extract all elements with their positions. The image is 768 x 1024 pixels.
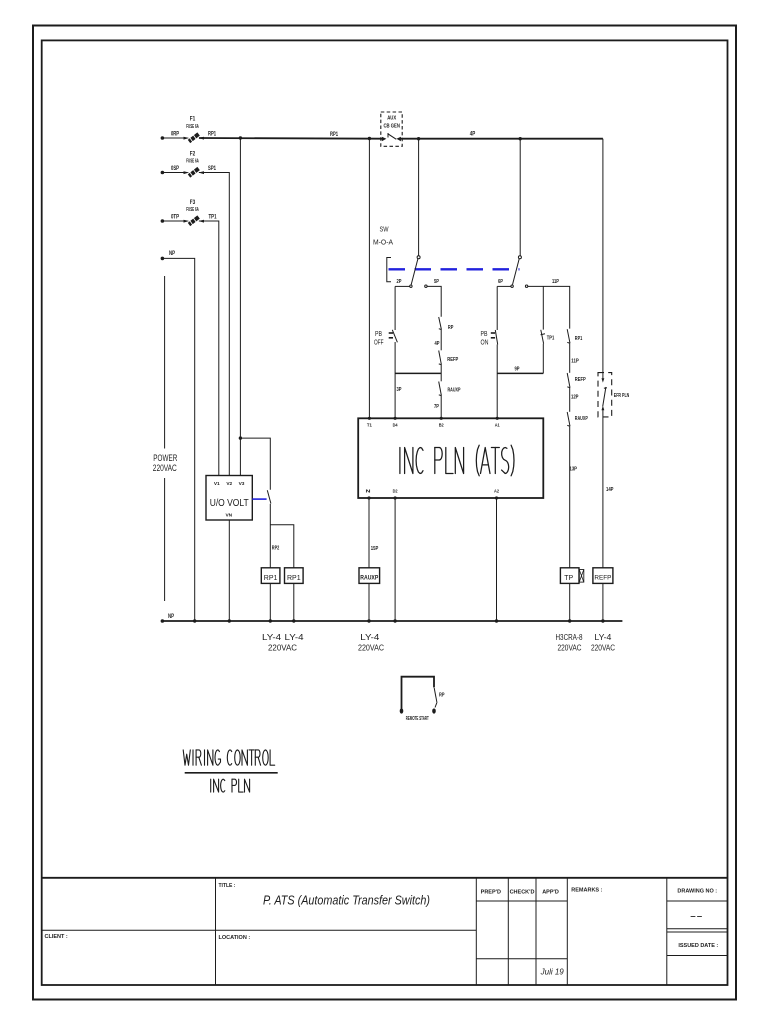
node 0TP <box>161 219 165 223</box>
svg-text:2P: 2P <box>397 279 402 285</box>
pin dot B2 <box>440 417 443 420</box>
svg-text:3P: 3P <box>397 387 402 393</box>
wire branch to RP1 coil 2 <box>270 525 294 568</box>
wire PB ON top <box>496 286 498 330</box>
header underline right <box>476 900 567 902</box>
svg-text:CB GEN: CB GEN <box>383 124 400 130</box>
label INC PLN (ATS) <box>399 448 401 474</box>
svg-text:FUSE 6A: FUSE 6A <box>186 124 199 130</box>
coil REFP <box>593 568 613 584</box>
svg-text:LY-4: LY-4 <box>594 632 611 642</box>
svg-text:RAUXP: RAUXP <box>575 416 588 422</box>
svg-text:RP1: RP1 <box>264 575 278 582</box>
wire RAUXP to rail <box>368 583 370 621</box>
contact RP remote <box>434 688 437 703</box>
svg-text:LY-4: LY-4 <box>262 632 281 642</box>
relay box U/O VOLT <box>206 476 252 521</box>
svg-text:0TP: 0TP <box>171 215 179 221</box>
title WIRING CONTROL <box>183 750 190 765</box>
junction dot <box>417 137 420 140</box>
junction dot <box>519 137 522 140</box>
pin dot N <box>367 496 370 499</box>
svg-text:P. ATS (Automatic Transfer Swi: P. ATS (Automatic Transfer Switch) <box>263 894 430 908</box>
wire 7P <box>440 396 442 419</box>
svg-text:ISSUED DATE :: ISSUED DATE : <box>678 943 718 949</box>
contact RP1 <box>567 329 570 343</box>
wire V3 column <box>239 138 241 476</box>
wire A2 to rail <box>496 498 498 621</box>
svg-text:220VAC: 220VAC <box>358 643 384 653</box>
aux breaker contact CB GEN <box>381 112 402 146</box>
wire D2 to rail <box>394 498 396 621</box>
wire TP1 column top <box>542 286 544 329</box>
svg-text:LY-4: LY-4 <box>285 632 304 642</box>
svg-text:REFP: REFP <box>575 377 586 383</box>
svg-text:RP: RP <box>448 325 454 331</box>
svg-text:RAUXP: RAUXP <box>448 388 461 394</box>
svg-text:DRAWING NO :: DRAWING NO : <box>677 889 717 895</box>
junction dots on rail <box>193 619 196 622</box>
svg-text:REMOTE START: REMOTE START <box>406 716 429 722</box>
svg-text:220VAC: 220VAC <box>153 463 177 473</box>
wire 11P top <box>528 286 570 328</box>
wire NP <box>162 258 194 621</box>
node NP top <box>161 257 165 261</box>
svg-text:6P: 6P <box>498 279 503 285</box>
svg-text:FUSE 6A: FUSE 6A <box>186 159 199 165</box>
wire PB OFF top <box>394 286 396 330</box>
wire 3P crossbar <box>395 372 441 374</box>
wire VN <box>228 520 230 621</box>
svg-text:N: N <box>366 489 371 494</box>
svg-text:RP1: RP1 <box>208 132 216 138</box>
cell divider v4 <box>535 878 537 985</box>
svg-text:LOCATION :: LOCATION : <box>219 935 251 941</box>
svg-text:220VAC: 220VAC <box>268 643 297 653</box>
contact RP <box>439 317 442 330</box>
wire coil a to rail <box>269 583 271 621</box>
svg-text:REFP: REFP <box>447 357 458 363</box>
wire 13P <box>569 426 571 568</box>
sig row line <box>476 958 567 960</box>
cell divider v2 <box>475 878 477 985</box>
client divider <box>42 929 477 931</box>
svg-text:RP2: RP2 <box>272 546 280 552</box>
wire top rail left <box>199 137 383 140</box>
wire TP to rail <box>569 583 571 621</box>
timer coil TP <box>560 568 583 584</box>
svg-text:NP: NP <box>169 251 175 257</box>
svg-text:U/O VOLT: U/O VOLT <box>210 497 249 509</box>
svg-text:TP1: TP1 <box>547 336 555 342</box>
title underline <box>185 772 278 774</box>
terminal dot right <box>432 708 436 713</box>
wire 0TP <box>162 220 187 222</box>
pin dot A2 <box>495 496 498 499</box>
svg-text:15P: 15P <box>371 546 379 552</box>
svg-text:14P: 14P <box>606 487 614 493</box>
power span line upper <box>164 276 166 449</box>
svg-text:A2: A2 <box>494 489 499 494</box>
cell divider v6 <box>666 878 668 985</box>
pin dot T1 <box>368 417 371 420</box>
terminal dot left <box>400 708 404 713</box>
wire below REFP <box>440 365 442 382</box>
node 0SP <box>161 171 165 175</box>
fuse F1 <box>184 134 205 142</box>
drawing no divider <box>667 900 728 902</box>
svg-text:POWER: POWER <box>153 453 177 463</box>
cell divider v1 <box>215 878 217 985</box>
wire PB OFF bottom <box>394 342 396 418</box>
wire branch to contact <box>240 438 270 490</box>
svg-text:7P: 7P <box>434 404 439 410</box>
svg-text:D4: D4 <box>393 423 398 428</box>
svg-text:B2: B2 <box>439 423 444 428</box>
svg-text:TP: TP <box>564 575 573 582</box>
wire 15P <box>368 498 370 568</box>
wire coil b to rail <box>293 583 295 621</box>
contact RAUXP <box>567 412 570 426</box>
node 0RP <box>161 136 165 140</box>
svg-text:0RP: 0RP <box>171 132 179 138</box>
svg-text:220VAC: 220VAC <box>591 643 615 653</box>
svg-text:F3: F3 <box>190 199 196 206</box>
drawing no box bottom <box>667 928 728 930</box>
wire 14P <box>602 408 604 568</box>
svg-text:RP: RP <box>439 693 445 699</box>
svg-text:PREP'D: PREP'D <box>481 890 501 896</box>
wire top rail right <box>400 138 603 140</box>
selector bracket <box>387 258 391 282</box>
svg-text:TP1: TP1 <box>209 215 217 221</box>
svg-text:H3CRA-8: H3CRA-8 <box>556 632 583 642</box>
svg-text:V2: V2 <box>226 481 232 487</box>
contact REFP <box>567 373 570 388</box>
wire 0SP <box>162 172 187 174</box>
wire 0RP <box>162 137 187 139</box>
wire TP1 bottom <box>542 344 544 374</box>
svg-text:220VAC: 220VAC <box>558 643 582 653</box>
svg-text:5P: 5P <box>434 279 439 285</box>
svg-text:13P: 13P <box>570 467 578 473</box>
svg-text:RP1: RP1 <box>287 575 301 582</box>
pushbutton PB ON <box>481 329 498 347</box>
svg-text:RP1: RP1 <box>575 336 583 342</box>
wire 5P <box>427 286 441 316</box>
wire below contact <box>269 504 271 568</box>
fuse F2 <box>184 169 205 177</box>
svg-text:OFF: OFF <box>374 338 384 347</box>
contact RP blade <box>267 490 271 503</box>
svg-text:4P: 4P <box>435 341 440 347</box>
node NP bottom <box>161 619 165 623</box>
svg-text:SW: SW <box>380 225 390 234</box>
wire 2P <box>395 285 409 287</box>
svg-text:--: -- <box>690 911 704 923</box>
pushbutton PB OFF <box>374 329 397 347</box>
cell divider v5 <box>566 878 568 985</box>
svg-text:CHECK'D: CHECK'D <box>510 890 535 896</box>
fuse F3 <box>184 217 205 225</box>
svg-text:RAUXP: RAUXP <box>360 576 378 582</box>
pin dot A1 <box>496 417 499 420</box>
svg-text:M-O-A: M-O-A <box>373 238 393 247</box>
svg-text:4P: 4P <box>470 132 476 138</box>
issued date box bottom <box>667 955 728 957</box>
svg-text:VN: VN <box>225 513 232 519</box>
contact landing ticks <box>439 328 441 331</box>
pin dot D2 <box>394 496 397 499</box>
svg-text:NP: NP <box>168 614 174 620</box>
svg-text:LY-4: LY-4 <box>360 632 379 642</box>
contact TP1 <box>541 330 544 344</box>
svg-text:11P: 11P <box>552 279 559 285</box>
contact RAUXP <box>439 382 442 396</box>
contact REFP <box>439 351 442 365</box>
coil RP1 b <box>285 568 304 584</box>
mechanical link (blue dashed) <box>389 268 520 270</box>
switch SW left pole <box>410 139 427 288</box>
svg-text:9P: 9P <box>515 367 520 373</box>
title INC PLN <box>210 779 212 792</box>
svg-text:V3: V3 <box>239 481 245 487</box>
wire 6P <box>497 285 511 287</box>
wire SP1 <box>199 173 229 477</box>
svg-text:12P: 12P <box>571 395 579 401</box>
svg-text:F1: F1 <box>190 116 196 123</box>
svg-text:SP1: SP1 <box>208 166 216 172</box>
svg-text:CLIENT :: CLIENT : <box>45 934 68 940</box>
wire TP1 <box>199 221 219 476</box>
svg-text:AUX: AUX <box>387 116 396 122</box>
ATS box INC PLN <box>358 418 543 498</box>
wire bottom rail <box>162 620 622 622</box>
svg-text:TITLE :: TITLE : <box>219 883 236 889</box>
link U/O VOLT to contact <box>252 498 266 500</box>
svg-text:11P: 11P <box>571 359 579 365</box>
wire 9P crossbar <box>497 372 543 374</box>
svg-text:REFP: REFP <box>594 575 611 582</box>
junction dot <box>239 436 242 439</box>
power span line lower <box>164 478 166 601</box>
wire REFP to rail <box>602 583 604 621</box>
relay contact EFR PLN <box>598 373 612 417</box>
svg-text:T1: T1 <box>367 423 372 428</box>
title block top line <box>42 877 728 879</box>
coil RAUXP <box>359 568 380 584</box>
wire 4P <box>440 330 442 351</box>
svg-text:V1: V1 <box>214 481 220 487</box>
wire remote start bracket <box>402 677 435 710</box>
svg-text:REMARKS :: REMARKS : <box>571 888 602 894</box>
svg-text:RP1: RP1 <box>330 132 338 138</box>
svg-text:EFR PLN: EFR PLN <box>614 393 630 399</box>
coil RP1 a <box>261 568 280 584</box>
wire right column <box>602 139 604 380</box>
cell divider v3 <box>507 878 509 985</box>
switch SW right pole <box>511 139 528 288</box>
issued date box top <box>667 931 728 933</box>
junction dot <box>239 136 242 139</box>
svg-text:APP'D: APP'D <box>542 890 559 896</box>
junction dot <box>368 137 371 140</box>
svg-text:FUSE 6A: FUSE 6A <box>186 207 199 213</box>
wire 11P seg <box>569 343 571 373</box>
svg-text:D2: D2 <box>393 489 398 494</box>
wire 12P seg <box>569 388 571 412</box>
svg-text:A1: A1 <box>495 423 500 428</box>
wire PB ON bottom <box>496 345 498 419</box>
svg-text:ON: ON <box>481 338 489 347</box>
svg-text:Juli 19: Juli 19 <box>540 968 565 977</box>
svg-text:0SP: 0SP <box>171 166 179 172</box>
svg-text:F2: F2 <box>190 151 196 158</box>
pin dot D4 <box>394 417 397 420</box>
wire pin T1 <box>368 139 370 419</box>
